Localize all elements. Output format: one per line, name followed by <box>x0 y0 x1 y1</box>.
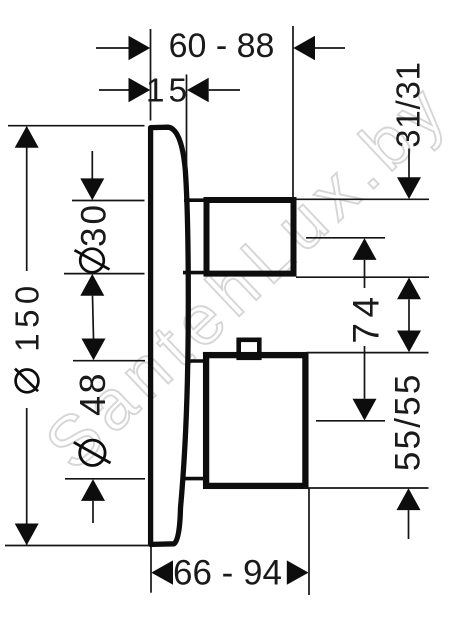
Ø150 top arrow <box>15 126 39 148</box>
extension line A x=150.5 (wall face) <box>150 29 152 121</box>
watermark SantehLux.by <box>31 67 465 484</box>
svg-text:74: 74 <box>346 291 387 343</box>
escutcheon plate (side view, Ø150) <box>151 127 189 544</box>
svg-text:60 - 88: 60 - 88 <box>169 27 275 65</box>
extension line C x=293 (upper knob face) <box>292 26 294 199</box>
svg-text:15: 15 <box>146 73 191 110</box>
Ø150 bottom extension line <box>5 545 149 547</box>
Ø48 bottom arrow (up) <box>81 479 105 501</box>
upper knob centerline extension <box>306 237 385 239</box>
lower knob centerline extension <box>316 420 385 422</box>
extension line x=151 (bottom, plate back) <box>150 547 152 593</box>
Ø150 top extension line <box>8 125 145 127</box>
Ø48 bottom extension line <box>65 478 145 480</box>
Ø150 bottom arrow <box>15 524 39 546</box>
extension line y=488 (lower knob bottom) <box>303 487 429 489</box>
Ø150 dim line lower segment <box>26 408 28 545</box>
dim 15 left arrow <box>129 78 151 102</box>
upper handle stem bottom line <box>183 271 208 275</box>
31/31 dim line <box>408 149 410 178</box>
Ø30 bottom extension line <box>64 273 145 275</box>
dim 15 left tail <box>99 89 130 91</box>
Ø48 top arrow (down) <box>82 339 106 361</box>
gap dim lower arrow (down) <box>397 331 421 353</box>
upper handle stem top line <box>184 198 208 202</box>
74 dim line lower <box>364 346 366 399</box>
dim 60-88 right arrow <box>293 36 315 60</box>
label Ø of Ø 48 (rotated) <box>74 440 111 465</box>
Ø150 dim line upper segment <box>26 127 28 271</box>
lower handle stem top line <box>186 359 209 363</box>
gap dim line <box>408 299 410 330</box>
lower handle stem bottom line <box>183 477 209 481</box>
31/31 arrow (down) <box>397 177 421 199</box>
Ø30 top extension line <box>72 200 145 202</box>
dim 66-94 right arrow <box>287 560 309 584</box>
dim 60-88 left tail <box>96 47 129 49</box>
Ø48 top extension line <box>73 360 145 362</box>
lower handle tab button <box>239 340 260 358</box>
lower handle knob (Ø48) <box>206 355 305 486</box>
dim 60-88 left arrow <box>129 36 151 60</box>
55/55 arrow (up) <box>397 488 421 510</box>
svg-text:150: 150 <box>9 280 46 352</box>
Ø48 dim line below <box>92 501 94 523</box>
Ø30 dim line above <box>91 151 93 179</box>
upper handle knob (Ø30) <box>207 200 294 274</box>
dim 66-94 left arrow <box>151 560 173 584</box>
svg-text:66 - 94: 66 - 94 <box>173 553 282 592</box>
55/55 dim tail below <box>408 510 410 539</box>
extension line y=277 (upper knob bottom) <box>296 276 429 278</box>
dim 15 right arrow <box>187 78 209 102</box>
Ø30 bottom arrow (up) <box>80 274 104 296</box>
extension line B x=186.5 (plate front) <box>186 75 188 177</box>
svg-text:48: 48 <box>72 371 113 416</box>
dim 60-88 right tail <box>315 47 345 49</box>
74 bottom arrow (down) <box>353 399 377 421</box>
74 top arrow (up) <box>353 238 377 260</box>
gap dim upper arrow (up) <box>397 278 421 300</box>
dim 15 right tail <box>209 89 240 91</box>
svg-text:30: 30 <box>75 202 114 247</box>
svg-text:31/31: 31/31 <box>390 61 427 148</box>
Ø30 top arrow (down) <box>80 178 104 200</box>
extension line x=309 (lower knob face) <box>308 489 310 596</box>
Ø symbol of 150 <box>15 369 38 393</box>
Ø symbol of 30 <box>75 249 110 273</box>
extension line y=199 (upper knob top) <box>293 198 429 200</box>
svg-text:55/55: 55/55 <box>389 373 428 472</box>
shared dim line between Ø30 and Ø48 <box>93 296 94 339</box>
extension line y=352.6 (lower knob top) <box>307 352 429 354</box>
74 dim line upper <box>364 260 366 288</box>
